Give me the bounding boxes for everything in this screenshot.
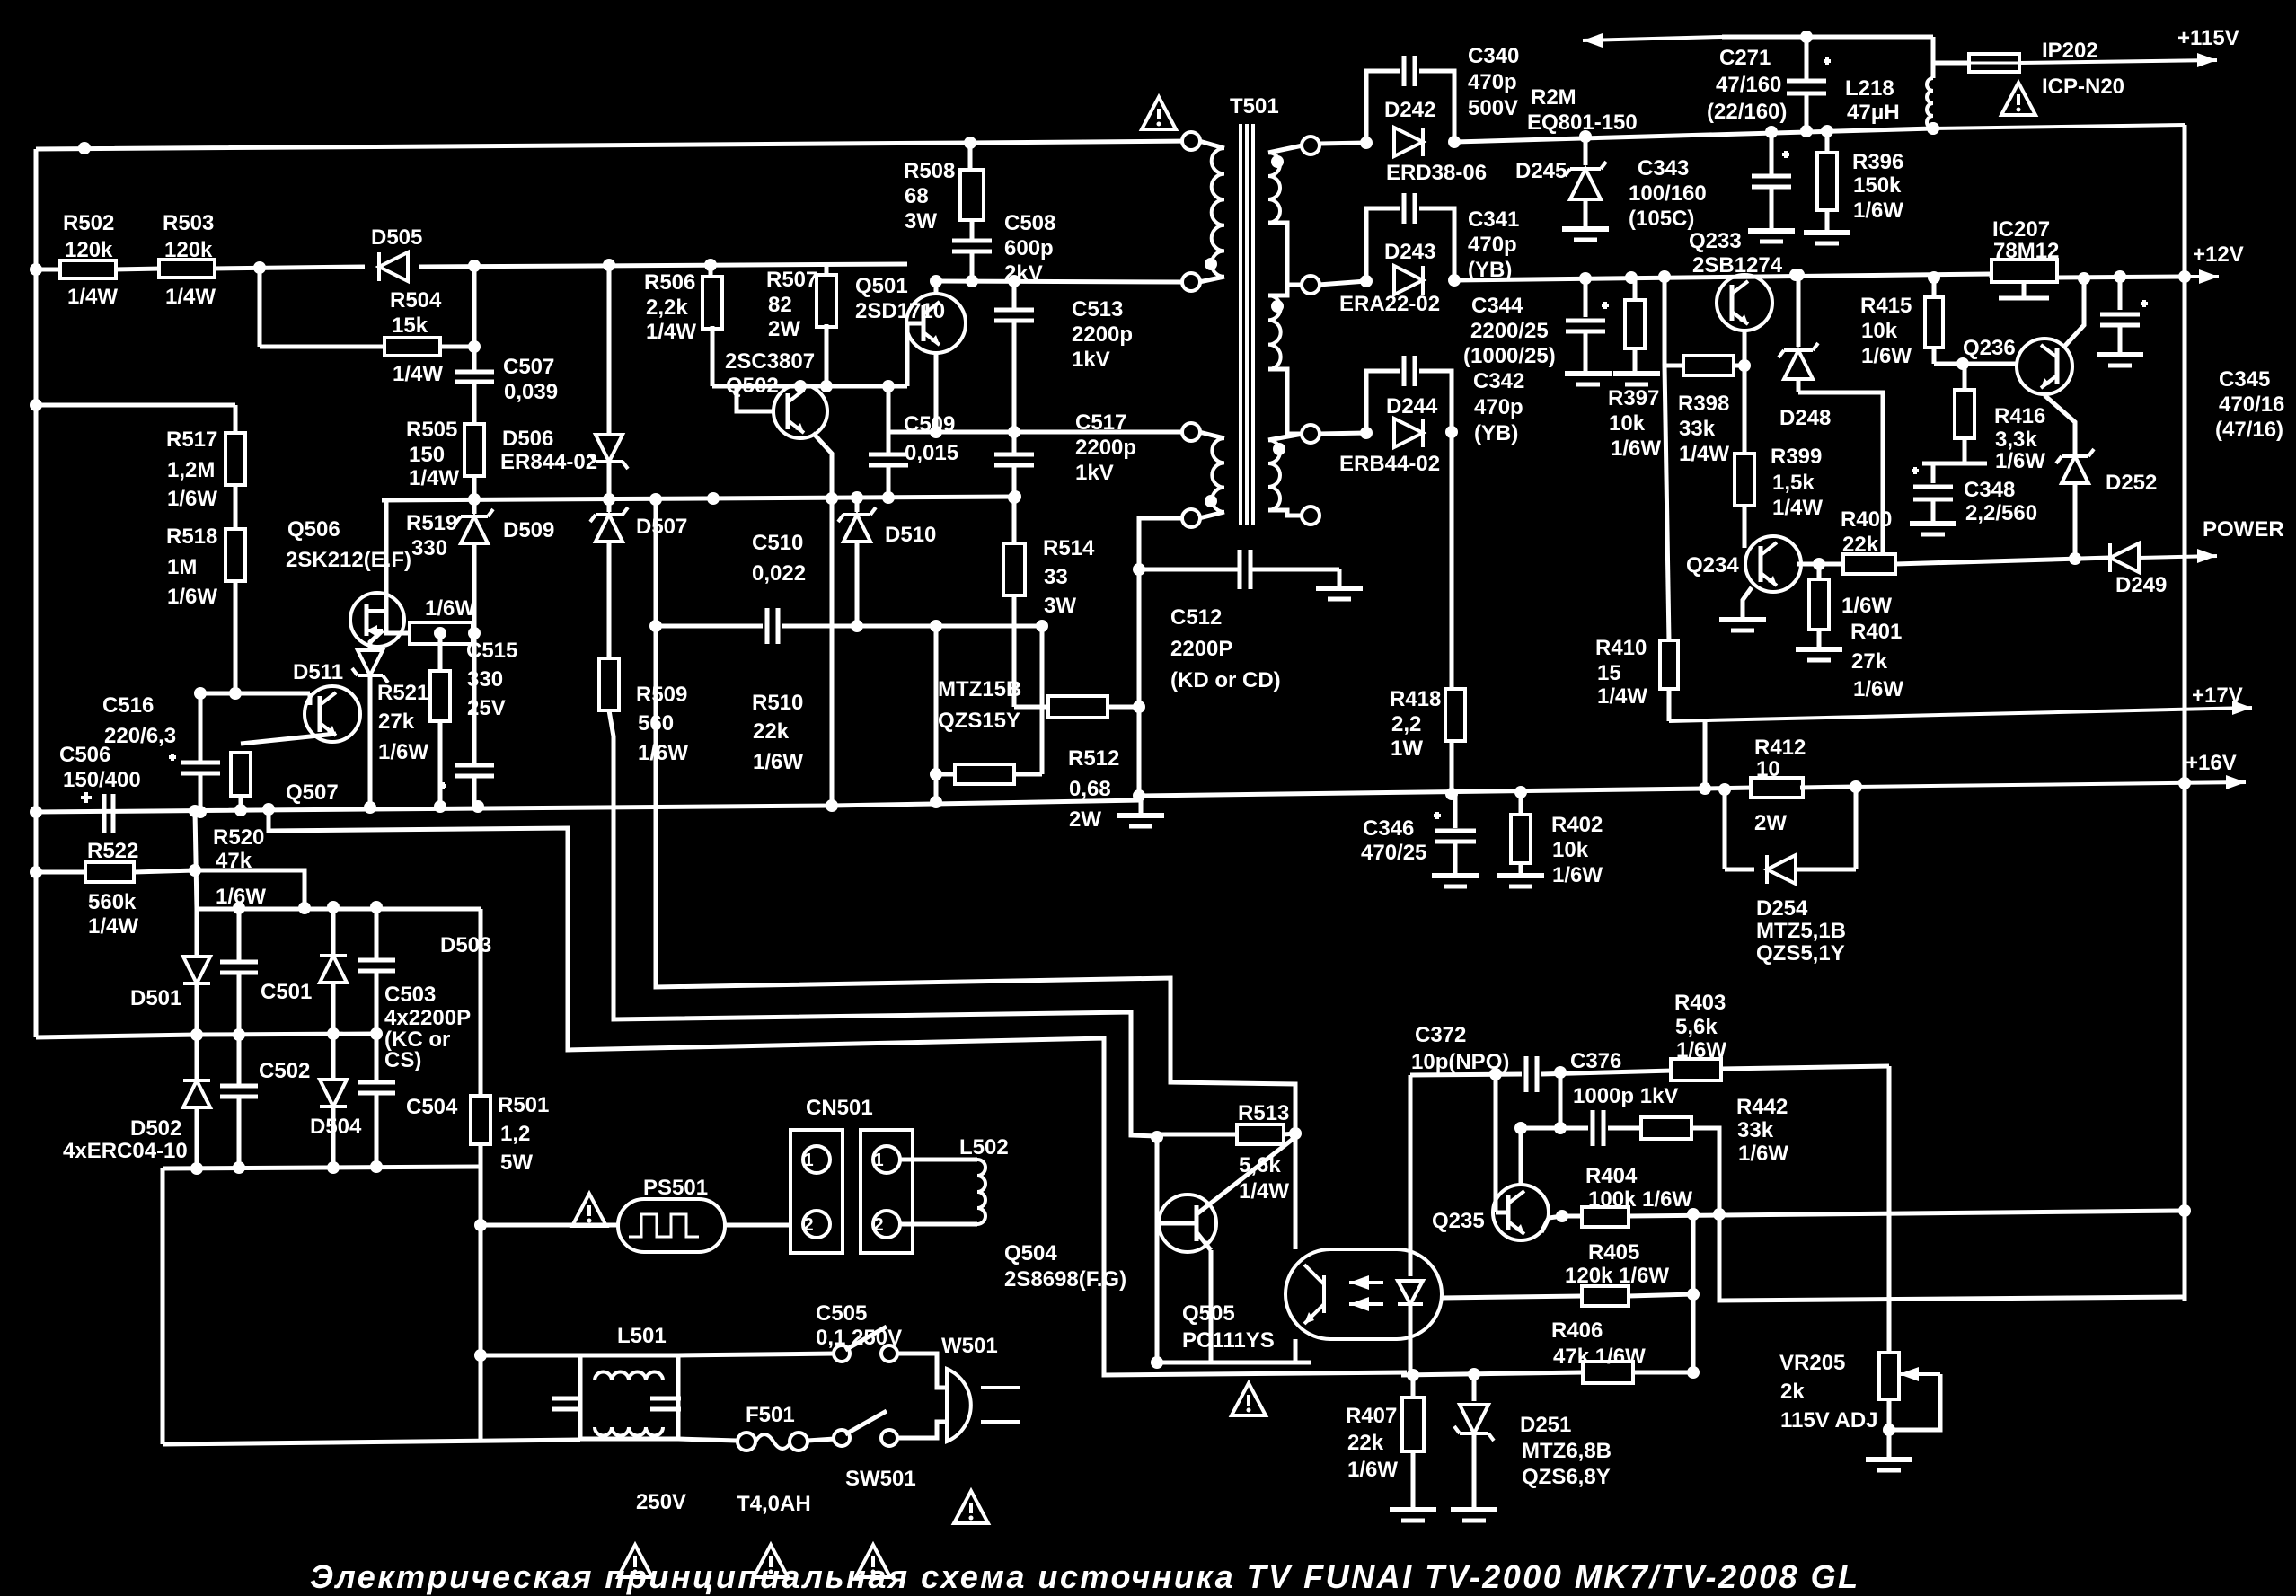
resistor R522 — [36, 870, 85, 875]
wire Q235 collector — [1519, 1128, 1523, 1185]
transformer T501 lower primary winding — [1182, 423, 1200, 441]
resistor R513 — [1157, 1133, 1238, 1137]
svg-text:470p: 470p — [1468, 70, 1517, 94]
transformer T501 secondary winding 3 — [1302, 425, 1320, 443]
wire feedback staircase C — [269, 809, 1407, 1375]
svg-text:120k: 120k — [65, 238, 113, 262]
resistor R504 — [384, 338, 440, 356]
resistor R520 — [241, 734, 336, 744]
inductor L502 — [900, 1158, 977, 1162]
svg-text:2200/25: 2200/25 — [1470, 319, 1549, 343]
svg-text:2SC3807: 2SC3807 — [725, 349, 815, 374]
svg-text:PC111YS: PC111YS — [1182, 1328, 1275, 1353]
diode D501 — [195, 909, 199, 959]
svg-text:1/6W: 1/6W — [1552, 863, 1603, 887]
fuse F501 — [737, 1433, 755, 1451]
svg-text:5,6k: 5,6k — [1239, 1153, 1281, 1177]
zener D248 — [1797, 275, 1801, 347]
svg-text:1/6W: 1/6W — [1995, 449, 2045, 473]
capacitor C516 — [199, 693, 203, 763]
resistor R501 — [479, 909, 483, 1097]
resistor R412 — [1705, 788, 1753, 789]
wire base row y430 — [712, 384, 907, 389]
diode D505 — [379, 252, 408, 281]
capacitor C513 — [1012, 281, 1017, 310]
svg-text:47/160: 47/160 — [1716, 73, 1781, 97]
svg-text:Q235: Q235 — [1432, 1209, 1485, 1233]
svg-text:1/6W: 1/6W — [1861, 344, 1912, 368]
wire Q504 base column — [1155, 1137, 1160, 1362]
svg-text:1/6W: 1/6W — [167, 585, 217, 609]
svg-text:R518: R518 — [166, 525, 217, 549]
svg-text:+17V: +17V — [2192, 683, 2243, 708]
svg-text:R517: R517 — [166, 428, 217, 452]
svg-text:EQ801-150: EQ801-150 — [1527, 110, 1638, 135]
svg-text:C344: C344 — [1471, 294, 1523, 318]
svg-text:R521: R521 — [377, 681, 428, 705]
svg-text:0,015: 0,015 — [905, 441, 958, 465]
transistor Q236 — [2017, 339, 2072, 394]
capacitor C372 — [1524, 1056, 1529, 1092]
wire mains left leg — [161, 1168, 165, 1444]
svg-text:150k: 150k — [1853, 173, 1902, 198]
svg-text:C508: C508 — [1004, 211, 1055, 235]
transformer T501 core — [1239, 124, 1242, 525]
svg-text:78M12: 78M12 — [1993, 239, 2059, 263]
svg-text:1: 1 — [873, 1151, 883, 1170]
svg-text:Q505: Q505 — [1182, 1301, 1235, 1326]
svg-text:D249: D249 — [2115, 573, 2167, 597]
capacitor C340 snubber loop — [1366, 71, 1400, 143]
resistor R503 — [159, 260, 215, 278]
svg-text:D254: D254 — [1756, 896, 1808, 921]
wire lower primary to C512 — [1139, 518, 1183, 569]
diode D244 — [1394, 419, 1423, 447]
svg-text:R2M: R2M — [1531, 85, 1576, 110]
svg-text:C346: C346 — [1363, 816, 1414, 841]
wire right border down — [1933, 125, 2185, 128]
svg-text:T501: T501 — [1230, 94, 1279, 119]
zener D509 — [472, 499, 477, 514]
svg-text:D509: D509 — [503, 518, 554, 542]
resistor R517 — [234, 405, 238, 432]
svg-text:MTZ15B: MTZ15B — [938, 677, 1021, 701]
svg-text:1/6W: 1/6W — [378, 740, 428, 764]
wire top rail — [36, 141, 1191, 149]
svg-text:QZS5,1Y: QZS5,1Y — [1756, 941, 1845, 966]
svg-text:330: 330 — [411, 536, 447, 560]
svg-text:R504: R504 — [390, 288, 442, 313]
svg-text:CN501: CN501 — [806, 1096, 873, 1120]
resistor R401 — [1817, 564, 1822, 579]
wire +17V rail — [1669, 708, 2252, 721]
diode D502 — [195, 1035, 199, 1083]
svg-text:Q502: Q502 — [726, 374, 779, 398]
svg-text:Q504: Q504 — [1004, 1241, 1057, 1265]
svg-text:R407: R407 — [1346, 1404, 1397, 1428]
svg-text:ERA22-02: ERA22-02 — [1339, 292, 1440, 316]
svg-text:500V: 500V — [1468, 96, 1518, 120]
svg-text:R509: R509 — [636, 683, 687, 707]
wire Q504 emitter — [1209, 1250, 1214, 1362]
svg-text:D511: D511 — [293, 660, 343, 684]
svg-text:R514: R514 — [1043, 536, 1095, 560]
wire feedback staircase B — [614, 736, 1157, 1136]
svg-text:600p: 600p — [1004, 236, 1054, 260]
svg-text:D505: D505 — [371, 225, 422, 250]
svg-text:68: 68 — [905, 184, 929, 208]
svg-text:33k: 33k — [1737, 1118, 1774, 1142]
wire C516 row — [30, 806, 42, 818]
svg-text:C515: C515 — [466, 639, 517, 663]
capacitor C346 — [1453, 794, 1458, 828]
svg-text:R506: R506 — [644, 270, 695, 295]
svg-text:R442: R442 — [1736, 1095, 1788, 1119]
wire filter bottom to fuse — [580, 1437, 678, 1442]
svg-text:10k: 10k — [1861, 319, 1898, 343]
svg-text:Q506: Q506 — [287, 517, 340, 542]
wire PS501 row — [481, 1223, 618, 1228]
diode D243 — [1394, 266, 1423, 295]
svg-text:ICP-N20: ICP-N20 — [2042, 75, 2124, 99]
svg-text:2200p: 2200p — [1075, 436, 1136, 460]
resistor R509 — [599, 658, 619, 710]
svg-text:ERD38-06: ERD38-06 — [1386, 161, 1487, 185]
svg-text:R416: R416 — [1994, 404, 2045, 428]
svg-text:1/4W: 1/4W — [165, 285, 216, 309]
svg-text:3W: 3W — [1044, 594, 1076, 618]
svg-text:1/4W: 1/4W — [393, 362, 443, 386]
resistor R407 — [1411, 1375, 1416, 1398]
svg-text:5W: 5W — [500, 1151, 533, 1175]
svg-text:D242: D242 — [1384, 98, 1435, 122]
svg-text:1W: 1W — [1391, 736, 1423, 761]
resistor R402 — [1519, 792, 1523, 815]
svg-text:2S8698(F.G): 2S8698(F.G) — [1004, 1267, 1126, 1292]
capacitor C504 — [375, 1034, 379, 1082]
svg-text:D251: D251 — [1520, 1413, 1571, 1437]
wire Q507 base — [308, 693, 313, 705]
wire Q501 emitter — [934, 353, 939, 432]
capacitor C508 — [970, 220, 975, 241]
svg-text:L501: L501 — [617, 1324, 667, 1348]
svg-text:2SB1274: 2SB1274 — [1692, 253, 1783, 278]
svg-text:1/4W: 1/4W — [67, 285, 118, 309]
svg-text:1: 1 — [803, 1151, 813, 1170]
svg-text:R520: R520 — [213, 825, 264, 850]
zener D510 — [855, 498, 860, 512]
transistor Q506 (FET) — [350, 593, 404, 647]
wire C507 string — [472, 266, 477, 372]
svg-text:1/4W: 1/4W — [1679, 442, 1729, 466]
svg-text:C343: C343 — [1638, 156, 1689, 181]
svg-text:4x2200P: 4x2200P — [384, 1006, 471, 1030]
wire bridge to mains — [479, 1167, 483, 1440]
plug W501 — [896, 1354, 947, 1388]
svg-text:1/6W: 1/6W — [638, 741, 688, 765]
svg-text:Q501: Q501 — [855, 274, 908, 298]
svg-text:47k 1/6W: 47k 1/6W — [1553, 1345, 1646, 1369]
capacitor C502 — [237, 1035, 242, 1086]
inductor L218 — [1931, 37, 1936, 78]
resistor R410 — [1665, 366, 1669, 641]
svg-text:QZS15Y: QZS15Y — [938, 709, 1020, 733]
wire C271 top rail — [1722, 35, 1933, 40]
svg-text:C509: C509 — [904, 412, 955, 436]
svg-text:C271: C271 — [1719, 46, 1771, 70]
svg-text:C345: C345 — [2219, 367, 2270, 392]
warning triangle ICP — [2001, 83, 2035, 115]
svg-text:82: 82 — [768, 293, 792, 317]
svg-text:L218: L218 — [1845, 76, 1894, 101]
svg-text:R519: R519 — [406, 511, 457, 535]
svg-text:1,2M: 1,2M — [167, 458, 215, 482]
resistor R502 — [60, 260, 116, 278]
warning triangle left of T501 — [1142, 97, 1176, 129]
warning triangle opto — [1232, 1383, 1266, 1415]
wire mid row y556 — [382, 497, 1015, 500]
transistor Q234 — [1745, 536, 1801, 592]
wire LED anode — [1409, 1075, 1413, 1276]
svg-text:R402: R402 — [1551, 813, 1603, 837]
node top-rail junction — [78, 142, 91, 154]
capacitor C345 — [2118, 277, 2123, 310]
capacitor C506 — [102, 794, 107, 833]
svg-text:ER844-02: ER844-02 — [500, 450, 597, 474]
svg-text:10p(NPO): 10p(NPO) — [1411, 1050, 1509, 1074]
svg-text:22k: 22k — [753, 719, 790, 744]
zener D252 — [2044, 395, 2075, 454]
svg-text:C510: C510 — [752, 531, 803, 555]
svg-text:Q233: Q233 — [1689, 229, 1742, 253]
capacitor C348 — [1931, 463, 1936, 483]
connector CN501 — [790, 1130, 843, 1253]
diode D242 — [1394, 128, 1423, 156]
svg-text:C516: C516 — [102, 693, 154, 718]
wire R517 top — [36, 403, 235, 408]
svg-text:R418: R418 — [1390, 687, 1441, 711]
wire mains bottom rail — [163, 1440, 580, 1444]
svg-text:C372: C372 — [1415, 1023, 1466, 1047]
resistor R506 — [709, 265, 713, 279]
warning triangles bottom — [618, 1545, 652, 1577]
svg-text:PS501: PS501 — [643, 1176, 708, 1200]
wire Q235 emitter to R404 — [1541, 1216, 1562, 1232]
wire +115V arrow — [2019, 60, 2217, 63]
svg-text:D244: D244 — [1386, 394, 1438, 419]
svg-text:R510: R510 — [752, 691, 803, 715]
capacitor C503 — [375, 907, 379, 960]
svg-text:1000p 1kV: 1000p 1kV — [1573, 1084, 1678, 1108]
resistor R397 — [1633, 278, 1638, 301]
svg-text:22k: 22k — [1842, 533, 1879, 557]
svg-text:R522: R522 — [87, 839, 138, 863]
svg-text:22k: 22k — [1347, 1431, 1384, 1455]
svg-text:100k 1/6W: 100k 1/6W — [1588, 1187, 1692, 1212]
wire +12V rail — [2057, 277, 2185, 278]
diode D243 row — [1319, 281, 1366, 285]
ground C512 — [1338, 569, 1342, 586]
resistor R521 — [438, 633, 443, 669]
wire Q234 emitter gnd — [1743, 587, 1752, 618]
capacitor C343 — [1770, 132, 1774, 176]
svg-text:QZS6,8Y: QZS6,8Y — [1522, 1465, 1611, 1489]
svg-text:D243: D243 — [1384, 240, 1435, 264]
svg-text:115V ADJ: 115V ADJ — [1780, 1408, 1878, 1433]
resistor R507 — [825, 265, 829, 278]
svg-text:D504: D504 — [310, 1115, 362, 1139]
resistor R518 — [234, 486, 238, 528]
capacitor C341 snubber loop — [1366, 208, 1400, 281]
svg-text:(YB): (YB) — [1468, 258, 1512, 282]
resistor R505 — [464, 424, 484, 476]
svg-text:R505: R505 — [406, 418, 457, 442]
resistor R399 — [1743, 366, 1747, 454]
wire Q236 base row — [1934, 362, 2017, 366]
svg-text:(47/16): (47/16) — [2215, 418, 2283, 442]
wire bridge mid rail — [197, 1034, 376, 1035]
svg-text:1/6W: 1/6W — [425, 596, 475, 621]
svg-text:1/4W: 1/4W — [1597, 684, 1647, 709]
svg-text:R412: R412 — [1754, 736, 1806, 760]
wire R522 column — [195, 811, 197, 909]
wire R504 branch — [258, 268, 262, 347]
svg-text:+12V: +12V — [2193, 242, 2244, 267]
diode D244 row — [1319, 433, 1366, 434]
svg-text:POWER: POWER — [2203, 517, 2284, 542]
svg-text:CS): CS) — [384, 1048, 421, 1072]
svg-text:0,039: 0,039 — [504, 380, 558, 404]
svg-text:2,2/560: 2,2/560 — [1965, 501, 2037, 525]
svg-text:(KD or CD): (KD or CD) — [1170, 668, 1281, 692]
resistor R442 — [1641, 1117, 1691, 1139]
capacitor C509 — [887, 386, 891, 454]
svg-text:L502: L502 — [959, 1135, 1009, 1160]
capacitor C271 — [1805, 37, 1809, 81]
svg-text:1/4W: 1/4W — [1239, 1179, 1289, 1204]
svg-text:R415: R415 — [1860, 294, 1912, 318]
wire opto LED leads — [1409, 1249, 1413, 1263]
wire LED cathode — [1409, 1304, 1413, 1375]
svg-text:+16V: +16V — [2186, 751, 2237, 775]
svg-text:27k: 27k — [1851, 649, 1888, 674]
svg-text:220/6,3: 220/6,3 — [104, 724, 176, 748]
ground bottom rail — [1139, 799, 1144, 814]
transistor Q501 — [906, 294, 966, 353]
resistor R416 — [1963, 364, 1967, 390]
wire R405 column — [1691, 1214, 1696, 1376]
svg-text:T4,0AH: T4,0AH — [737, 1492, 811, 1516]
resistor R406 — [1401, 1372, 1583, 1375]
svg-text:2SK212(E.F): 2SK212(E.F) — [286, 548, 411, 572]
wire R509 bottom — [609, 710, 614, 736]
wire Q506 drain — [384, 500, 389, 611]
svg-text:MTZ5,1B: MTZ5,1B — [1756, 919, 1846, 943]
svg-text:R399: R399 — [1771, 445, 1822, 469]
svg-text:2,2k: 2,2k — [646, 295, 688, 320]
svg-text:5,6k: 5,6k — [1675, 1015, 1718, 1039]
resistor R508 — [968, 143, 973, 170]
wire C376 branch — [1559, 1072, 1563, 1128]
svg-text:2k: 2k — [1780, 1380, 1805, 1404]
svg-text:(22/160): (22/160) — [1707, 100, 1787, 124]
svg-text:R512: R512 — [1068, 746, 1119, 771]
wire +B feed arrow — [1583, 37, 1722, 40]
svg-text:15k: 15k — [392, 313, 428, 338]
svg-text:D245: D245 — [1515, 159, 1567, 183]
svg-text:1/6W: 1/6W — [1347, 1458, 1398, 1482]
capacitor C376 — [1560, 1126, 1588, 1131]
zener D506 — [607, 265, 612, 433]
svg-text:Электрическая принципиальная с: Электрическая принципиальная схема источ… — [310, 1558, 1860, 1595]
wire POWER line — [1895, 558, 2110, 564]
capacitor C501 — [237, 909, 242, 962]
capacitor C515 — [472, 633, 477, 765]
svg-text:33: 33 — [1044, 565, 1068, 589]
resistor R510 — [934, 626, 939, 802]
svg-text:R507: R507 — [766, 268, 817, 292]
fuse IP202 — [1931, 63, 1936, 78]
svg-text:2: 2 — [873, 1215, 883, 1235]
svg-text:1/6W: 1/6W — [753, 750, 803, 774]
wire R502 row — [36, 268, 63, 272]
svg-text:2W: 2W — [768, 317, 800, 341]
svg-text:D248: D248 — [1779, 406, 1831, 430]
wire +16V arrow — [1856, 782, 2246, 787]
transformer T501 primary winding — [1182, 132, 1200, 150]
svg-text:Q236: Q236 — [1963, 336, 2016, 360]
svg-text:10k: 10k — [1552, 838, 1589, 862]
svg-text:R396: R396 — [1852, 150, 1903, 174]
svg-text:C376: C376 — [1570, 1049, 1621, 1073]
svg-text:33k: 33k — [1679, 417, 1716, 441]
inductor L501 filter — [481, 1354, 580, 1358]
svg-text:1/6W: 1/6W — [1841, 594, 1892, 618]
svg-text:D252: D252 — [2106, 471, 2157, 495]
wire secondary top rail — [1319, 143, 1366, 144]
wire filter to switch top — [678, 1354, 835, 1355]
svg-text:1/4W: 1/4W — [409, 466, 459, 490]
svg-text:1/4W: 1/4W — [646, 320, 696, 344]
svg-text:1/6W: 1/6W — [167, 487, 217, 511]
wire R505 to node — [472, 476, 477, 499]
svg-text:25V: 25V — [467, 696, 506, 720]
svg-text:Q507: Q507 — [286, 780, 339, 805]
svg-text:1/4W: 1/4W — [1772, 496, 1823, 520]
svg-text:ERB44-02: ERB44-02 — [1339, 452, 1440, 476]
transistor Q504 — [1159, 1195, 1216, 1252]
svg-text:R403: R403 — [1674, 991, 1726, 1015]
svg-text:470/25: 470/25 — [1361, 841, 1426, 865]
svg-text:+115V: +115V — [2177, 26, 2239, 50]
svg-text:W501: W501 — [941, 1334, 998, 1358]
svg-text:R397: R397 — [1608, 386, 1659, 410]
svg-text:10k: 10k — [1609, 411, 1646, 436]
resistor R418 — [1445, 689, 1465, 741]
svg-text:1kV: 1kV — [1075, 461, 1114, 485]
svg-text:(105C): (105C) — [1629, 207, 1694, 231]
diode D254 — [1854, 787, 1859, 869]
wire bridge bottom rail — [163, 1167, 481, 1168]
wire Q501 collector — [934, 281, 939, 294]
svg-text:2W: 2W — [1754, 811, 1787, 835]
IC207 regulator — [1990, 276, 1994, 278]
svg-text:1kV: 1kV — [1072, 348, 1110, 372]
wire rail-to-+17V link — [1703, 719, 1708, 789]
resistor R519 — [410, 622, 472, 644]
svg-text:C342: C342 — [1473, 369, 1524, 393]
svg-text:C503: C503 — [384, 983, 436, 1007]
